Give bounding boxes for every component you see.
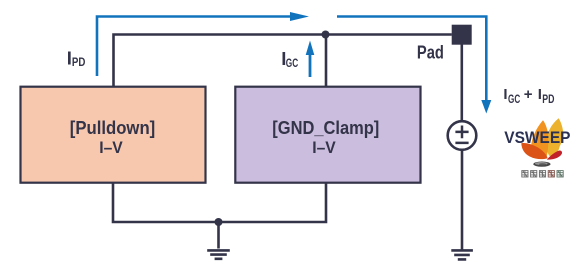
wire: blue feedback path from Pulldown top-left up and right (IPD)	[97, 17, 290, 77]
svg-text:I–V: I–V	[99, 138, 123, 157]
wire: from Pad square down to voltage source	[460, 45, 463, 122]
ground (right, under voltage source)	[451, 250, 473, 259]
junction dot at GND_Clamp/top-wire	[322, 31, 330, 39]
label IGC (current into GND_Clamp)	[281, 48, 298, 70]
box [GND_Clamp] I-V	[235, 87, 420, 183]
junction dot on bottom rail	[215, 218, 223, 226]
wire: dark wire from GND_Clamp top up to top wire	[325, 35, 328, 87]
svg-text:GC: GC	[508, 94, 520, 106]
arrowhead of blue IPD path pointing right	[290, 12, 309, 21]
label IGC + IPD (total current)	[503, 86, 554, 106]
gray lens ellipse of logo	[533, 162, 550, 167]
svg-text:GC: GC	[286, 58, 298, 70]
arrowhead pointing down at end of blue right path	[481, 100, 491, 114]
VSWEEP logo flame: right golden petal	[546, 118, 563, 158]
wire: bottom wires from boxes down to ground rail	[113, 183, 326, 222]
voltage source V1 (circle with + and -)	[448, 121, 477, 150]
svg-text:I–V: I–V	[312, 138, 336, 157]
label Pad	[417, 42, 444, 63]
ground (bottom center)	[207, 222, 230, 259]
svg-text:VSWEEP: VSWEEP	[504, 128, 570, 147]
blue arrow IGC pointing up above GND_Clamp box	[306, 41, 315, 78]
wire: from voltage source down to ground	[461, 150, 464, 250]
svg-text:PD: PD	[72, 57, 86, 69]
svg-text:Pad: Pad	[417, 42, 444, 63]
red swoosh (comma) of logo	[547, 151, 562, 160]
VSWEEP logo flame: center orange petal	[531, 120, 548, 159]
wire: dark wire from Pulldown top up and right to Pad	[114, 35, 452, 87]
Chinese caption 射频百花潭 (drawn as tiny glyph strokes)	[522, 171, 563, 177]
VSWEEP logo flame: left red-orange petal	[521, 143, 547, 159]
svg-text:+: +	[524, 86, 533, 103]
VSWEEP wordmark	[504, 128, 570, 147]
svg-text:[Pulldown]: [Pulldown]	[70, 117, 156, 138]
wire: blue path from gap to top-right corner down to arrow (IGC+IPD into pad)	[337, 17, 486, 101]
svg-text:[GND_Clamp]: [GND_Clamp]	[272, 117, 379, 138]
label IPD (current into Pulldown)	[67, 47, 86, 69]
Pad square	[452, 25, 472, 45]
box [Pulldown] I-V	[21, 87, 206, 183]
svg-text:I: I	[538, 86, 542, 103]
svg-text:I: I	[503, 86, 507, 103]
svg-text:PD: PD	[542, 94, 554, 106]
